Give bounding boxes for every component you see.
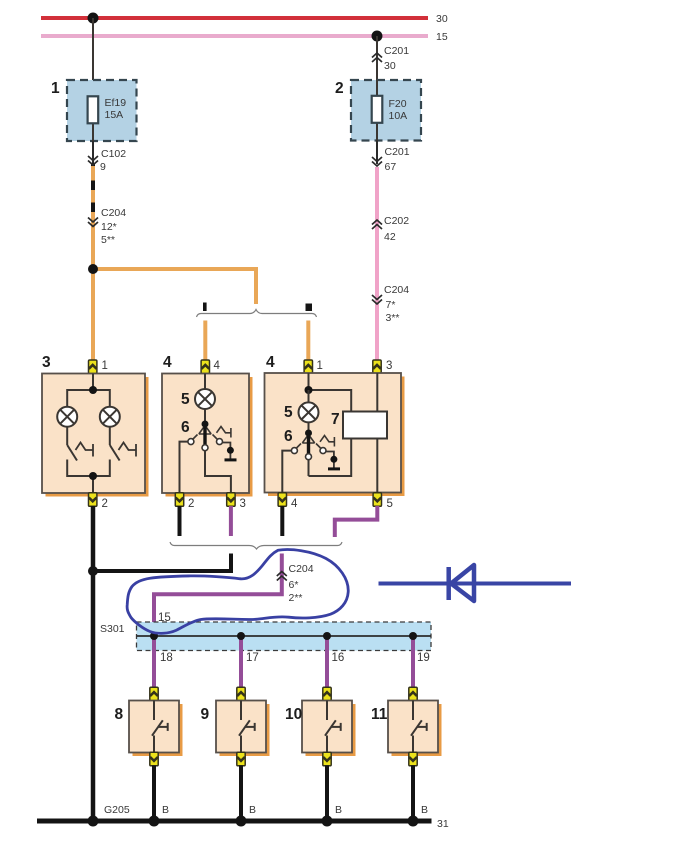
connector box4b pin1 [304,360,323,374]
connector box3 pin1 [89,360,108,374]
svg-text:9: 9 [201,706,210,723]
wire bus30 to fuse Ef19 [92,18,94,97]
svg-text:5: 5 [181,391,190,408]
svg-text:30: 30 [384,60,396,72]
bus 30 red power rail [41,13,448,25]
node rail box10 [322,804,343,827]
svg-text:7*: 7* [386,299,396,311]
box3 internal wires [67,374,110,497]
connector box11 bottom [409,752,417,766]
svg-text:1: 1 [317,360,323,372]
connector box10 top [323,687,331,701]
svg-text:8: 8 [115,706,124,723]
svg-text:4: 4 [266,354,275,371]
connector C204 pins 6*/2** [277,563,314,604]
fuse box 2 [335,80,421,141]
wire purple S301 to box10 [325,636,329,689]
connector box11 top [409,687,417,701]
svg-text:3: 3 [42,354,51,371]
node box3 top [89,386,97,394]
switch box8 [152,701,168,754]
svg-text:7: 7 [331,411,340,428]
ground internal box4b [326,452,340,470]
box4b wire top [308,373,310,390]
connector box4b pin4 [278,493,298,510]
splice S301 bar [100,622,431,651]
node orange junction [88,264,98,274]
bus 15 pink power rail [41,31,448,43]
svg-text:30: 30 [436,13,448,25]
box4a wires to bottom pins [180,442,231,497]
svg-text:4: 4 [214,360,221,372]
svg-text:B: B [421,804,428,816]
splice brace upper [197,310,317,318]
svg-text:42: 42 [384,231,396,243]
svg-text:B: B [162,804,169,816]
wire purple S301 to box11 [411,636,415,689]
wire orange branch right [93,269,256,304]
box4b right loop wire [309,390,352,476]
svg-text:1: 1 [102,360,108,372]
box 11 door switch [371,701,442,757]
svg-text:12*: 12* [101,221,117,233]
svg-text:2: 2 [102,498,108,510]
svg-text:2: 2 [335,80,344,97]
box4b wire lamp to node [308,422,310,433]
node S301 pin19 [409,632,417,640]
switch rotary box4a [188,424,231,451]
wire orange stub to box4a pin4 [203,321,207,362]
fuse box 1 [51,80,137,141]
svg-text:B: B [249,804,256,816]
connector box3 pin2 [89,493,108,510]
node 6 box4b [284,428,312,445]
lamp left box3 [57,407,77,427]
box4b wires to bottom pins [282,451,308,497]
connector box4b pin3 [373,360,393,374]
wire purple elbow box4b pin5 [335,506,378,537]
wire orange stub to box4b pin1 [306,321,310,362]
ground node G205 [88,804,130,827]
connector box9 bottom [237,752,245,766]
box4a wire top [204,374,206,390]
relay 7 box4b [331,411,387,439]
fuse Ef19 15A [88,96,127,141]
box 4b turn signal unit with relay [265,354,405,496]
lamp 5 box4a [181,389,215,409]
connector box8 bottom [150,752,158,766]
wire black box9 to rail [239,766,243,822]
wire pin3 through relay to pin5 [376,373,378,497]
svg-text:11: 11 [371,706,388,723]
node on bus 15 [372,31,383,42]
svg-text:2: 2 [188,498,194,510]
connector box4a pin2 [175,493,194,510]
svg-text:6: 6 [181,419,190,436]
svg-text:15: 15 [436,31,448,43]
wire purple S301 to box8 [152,636,156,689]
svg-text:C102: C102 [101,148,126,160]
wire orange junction to box3 pin1 [91,269,95,361]
node S301 pin17 [237,632,245,640]
connector C204 pins 12*/5** [88,207,126,246]
svg-text:B: B [335,804,342,816]
switch box11 [411,701,427,754]
wire pink fuse2 to C202 [375,167,379,361]
node main ground wire [88,566,98,576]
svg-text:18: 18 [160,652,173,664]
svg-text:6*: 6* [289,579,299,591]
box4a wire lamp to node [204,409,206,424]
svg-text:67: 67 [385,161,397,173]
svg-text:1: 1 [51,80,60,97]
ground internal box4a [223,443,237,461]
svg-text:5**: 5** [101,234,115,246]
box 10 door switch [285,701,356,757]
node box4b top [305,386,313,394]
connector C202 pin 42 [372,215,409,243]
svg-text:F20: F20 [389,98,407,110]
wire black box11 to rail [411,766,415,822]
wire black box8 to rail [152,766,156,822]
box 4a turn signal unit [162,354,253,497]
svg-text:C201: C201 [384,45,409,57]
svg-text:10A: 10A [389,110,408,122]
svg-text:31: 31 [437,818,449,830]
box 3 headlamp unit [42,354,149,497]
connector C204 pins 7*/3** [372,284,409,324]
svg-text:C204: C204 [289,563,314,575]
svg-text:15A: 15A [105,109,124,121]
lamp 5 box4b [284,390,319,422]
node box3 bottom [89,472,97,480]
svg-text:16: 16 [332,652,345,664]
svg-text:G205: G205 [104,804,130,816]
svg-text:10: 10 [285,706,302,723]
splice brace lower [170,542,342,549]
svg-text:4: 4 [163,354,172,371]
box 8 door switch [115,701,183,757]
node S301 pin16 [323,632,331,640]
wire thick black box3 pin2 to ground rail [91,506,96,821]
wire black stub box4a pin2 [178,506,182,536]
fuse F20 10A [372,80,407,141]
svg-text:5: 5 [387,498,393,510]
svg-text:C201: C201 [385,146,410,158]
svg-text:19: 19 [417,652,430,664]
switch rotary box4b [291,433,334,460]
wire purple S301 to box9 [239,636,243,689]
svg-text:3: 3 [240,498,246,510]
switch box9 [239,701,255,754]
svg-text:S301: S301 [100,623,125,635]
svg-text:C202: C202 [384,215,409,227]
svg-text:5: 5 [284,404,293,421]
svg-text:6: 6 [284,428,293,445]
option marker I [203,303,207,312]
svg-text:17: 17 [246,652,259,664]
svg-text:3**: 3** [386,312,400,324]
switch box10 [325,701,341,754]
lamp right box3 [100,407,120,427]
connector C201 pin 30 [372,36,409,80]
node on bus 30 [88,13,99,24]
wire purple stub box4a pin3 [229,506,233,536]
connector box9 top [237,687,245,701]
annotation blue freehand loop [127,550,348,634]
ground rail 31 [37,818,449,830]
svg-text:2**: 2** [289,592,303,604]
connector box4a pin3 [227,493,246,510]
option marker square [306,304,313,312]
switch right box3 [110,443,136,461]
node 6 box4a [181,419,209,436]
wire black elbow to main ground wire [93,554,231,572]
box 9 door switch [201,701,270,757]
connector C102 pin 9 arrow [88,141,126,173]
svg-text:3: 3 [386,360,392,372]
wire purple elbow to S301 [154,554,282,637]
connector box8 top [150,687,158,701]
node rail box9 [236,804,257,827]
connector C201 pin 67 arrow [372,141,410,174]
node rail box8 [149,804,170,827]
wire orange/black striped C102 to C204 [91,166,95,269]
node rail box11 [408,804,429,827]
connector box4b pin5 [373,493,393,510]
svg-text:C204: C204 [384,284,409,296]
annotation blue diode arrow [379,565,572,601]
connector box4a pin4 [201,360,220,374]
svg-text:9: 9 [100,161,106,173]
svg-text:4: 4 [291,498,298,510]
svg-text:C204: C204 [101,207,126,219]
connector box10 bottom [323,752,331,766]
switch left box3 [67,443,93,461]
svg-text:Ef19: Ef19 [105,97,127,109]
wire black stub box4b pin4 [280,506,284,536]
node S301 pin18 [150,632,158,640]
wire black box10 to rail [325,766,329,822]
